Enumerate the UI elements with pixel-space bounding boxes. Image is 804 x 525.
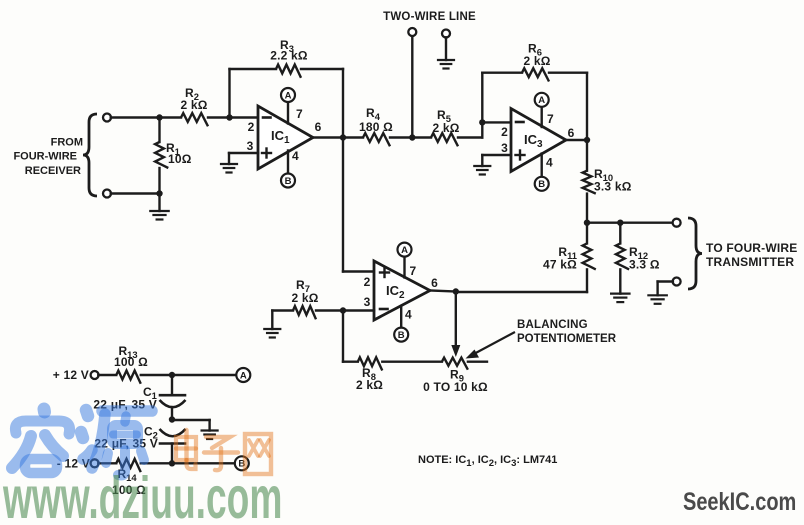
capacitor C1 (171, 375, 173, 395)
terminal A of IC3 (535, 93, 549, 107)
resistor R13 (98, 374, 116, 376)
svg-text:SeekIC.com: SeekIC.com (683, 488, 796, 516)
svg-text:2 kΩ: 2 kΩ (180, 98, 207, 112)
wire to terminal B (172, 462, 235, 464)
svg-text:3: 3 (247, 139, 254, 153)
svg-text:B: B (285, 176, 292, 187)
terminal B of IC2 (394, 328, 408, 342)
brace: to four-wire transmitter (688, 218, 702, 289)
node junction R1 top (156, 114, 162, 120)
node: four-wire receiver input top terminal (103, 114, 111, 122)
wire feedback top right (301, 68, 343, 70)
node: two-wire line terminal (408, 28, 416, 36)
svg-text:3: 3 (364, 295, 371, 309)
IC3 pin 4 stub (541, 154, 543, 177)
resistor R12 (619, 223, 621, 244)
resistor R5 (431, 133, 458, 146)
IC3 minus symbol (516, 121, 524, 124)
svg-text:FOUR-WIRE: FOUR-WIRE (13, 151, 77, 163)
node inverting input IC1 (226, 114, 232, 120)
svg-text:2 kΩ: 2 kΩ (291, 291, 318, 305)
node R12 top (617, 220, 623, 226)
wire feedback top left IC3 (482, 71, 522, 73)
ground at IC3 pin 3 (474, 165, 490, 167)
node: four-wire receiver input bottom terminal (103, 190, 111, 198)
terminal B of IC3 (535, 177, 549, 191)
node: to four-wire transmitter bottom terminal (673, 278, 681, 286)
svg-text:B: B (538, 179, 545, 190)
IC1 output wire (313, 136, 343, 138)
IC2 pin 4 stub (400, 306, 402, 328)
IC1 pin 7 stub (287, 103, 289, 124)
svg-text:4: 4 (546, 156, 553, 170)
brace: from four-wire receiver (83, 114, 97, 196)
svg-text:2: 2 (501, 125, 508, 139)
svg-text:+ 12 V: + 12 V (53, 368, 89, 382)
node output row left (584, 220, 590, 226)
wire bottom input (111, 192, 160, 194)
wire two-wire line vertical (411, 36, 413, 138)
resistor R10 (586, 140, 588, 171)
node junction R1 bottom (156, 190, 162, 196)
resistor R2 (181, 113, 208, 126)
svg-text:3: 3 (501, 141, 508, 155)
node capacitor midpoint (169, 416, 175, 422)
wire bottom terminal to ground (658, 280, 673, 282)
ground at two-wire line (438, 59, 454, 61)
wire IC2 inverting input (343, 309, 374, 311)
svg-text:2: 2 (364, 275, 371, 289)
node: +12 V terminal (91, 371, 99, 379)
terminal A of IC2 (398, 243, 412, 257)
wire to terminal A (172, 374, 236, 376)
svg-text:7: 7 (547, 112, 554, 126)
wire feedback right vertical IC3 (586, 73, 588, 140)
svg-text:2 kΩ: 2 kΩ (356, 378, 383, 392)
svg-text:RECEIVER: RECEIVER (25, 165, 81, 177)
svg-text:www.dziuu.com: www.dziuu.com (2, 465, 282, 520)
wire to IC3 inverting input (482, 121, 511, 123)
svg-text:3.3 kΩ: 3.3 kΩ (594, 180, 632, 194)
node: two-wire line ground terminal (442, 30, 450, 38)
resistor R4 (343, 136, 363, 138)
svg-text:2 kΩ: 2 kΩ (523, 54, 550, 68)
wire to IC1 inverting input (230, 116, 259, 118)
resistor R6 (522, 68, 549, 81)
svg-text:A: A (538, 95, 545, 106)
IC1 pin 3 wire to ground (229, 152, 258, 154)
svg-text:2 kΩ: 2 kΩ (432, 121, 459, 135)
node IC2 output (453, 288, 459, 294)
wiper arrow from IC2 output to R9 (455, 292, 457, 347)
resistor R7 (272, 309, 293, 311)
IC3 output wire (566, 139, 587, 141)
pointer arrow balancing potentiometer (472, 333, 514, 356)
svg-text:7: 7 (296, 107, 303, 121)
svg-text:4: 4 (292, 149, 299, 163)
svg-text:TO FOUR-WIRE: TO FOUR-WIRE (706, 241, 798, 255)
resistor R8 (343, 361, 358, 363)
ground at capacitor midpoint (202, 429, 218, 431)
svg-text:2: 2 (248, 120, 255, 134)
wire terminal to ground (445, 37, 447, 60)
IC2 plus symbol (380, 271, 389, 273)
resistor R1 (158, 118, 160, 143)
IC1 minus symbol (263, 116, 271, 119)
svg-text:0 TO 10 kΩ: 0 TO 10 kΩ (423, 380, 488, 394)
node two-wire junction (409, 134, 415, 140)
svg-text:3.3 Ω: 3.3 Ω (629, 258, 660, 272)
watermark chinese rong yuan (12, 409, 152, 476)
svg-text:6: 6 (315, 120, 322, 134)
ground at IC1 pin 3 (221, 163, 237, 165)
node R13 right (169, 372, 175, 378)
IC3 plus symbol (516, 154, 525, 156)
svg-text:A: A (240, 370, 247, 381)
IC1 plus symbol (262, 152, 271, 154)
wire top input (111, 116, 160, 118)
resistor R3 (276, 65, 301, 78)
wire feedback right vertical (342, 69, 344, 138)
svg-text:100 Ω: 100 Ω (114, 355, 148, 369)
IC2 minus symbol (380, 308, 388, 311)
op-amp IC2 (374, 261, 430, 320)
svg-text:47 kΩ: 47 kΩ (543, 258, 577, 272)
wire IC1 output down to IC2 noninverting input (342, 138, 344, 272)
terminal A of IC1 (281, 88, 295, 102)
IC3 pin 3 wire to ground (482, 154, 511, 156)
resistor R11 (586, 223, 588, 244)
svg-text:B: B (398, 330, 405, 341)
ground at transmitter bottom terminal (648, 294, 666, 296)
op-amp IC3 (511, 109, 566, 172)
svg-text:FROM: FROM (51, 137, 83, 149)
wire R7 to ground (271, 311, 273, 330)
node IC2 inverting input (340, 307, 346, 313)
node IC1 output (340, 134, 346, 140)
capacitor C2 (160, 429, 186, 436)
terminal B of IC1 (281, 174, 295, 188)
wire feedback top right IC3 (549, 71, 587, 73)
wire feedback left vertical (228, 69, 230, 118)
op-amp IC1 (258, 106, 313, 169)
svg-text:TRANSMITTER: TRANSMITTER (706, 255, 794, 269)
svg-text:TWO-WIRE LINE: TWO-WIRE LINE (383, 11, 476, 23)
node: -12 V terminal (91, 459, 99, 467)
wire IC2 inverting node down to R8 (342, 311, 344, 362)
wire feedback top left (230, 68, 277, 70)
svg-text:2.2 kΩ: 2.2 kΩ (270, 49, 308, 63)
wire IC3 input vertical (481, 73, 483, 138)
terminal B supply (235, 456, 249, 470)
IC3 pin 7 stub (541, 107, 543, 127)
svg-text:7: 7 (410, 264, 417, 278)
wire output row (587, 221, 673, 223)
ground at R7 (264, 328, 280, 330)
wire R11 bottom to IC2 output (456, 291, 587, 293)
IC1 pin 4 stub (287, 151, 289, 174)
IC2 output wire (430, 291, 456, 292)
wire input node to R2 (160, 116, 182, 118)
potentiometer R9 (442, 358, 468, 370)
resistor R14 (98, 462, 116, 464)
node: to four-wire transmitter top terminal (673, 219, 681, 227)
node R14 right (169, 460, 175, 466)
node IC3 inverting input (479, 119, 485, 125)
svg-text:A: A (401, 245, 408, 256)
svg-text:180 Ω: 180 Ω (359, 120, 393, 134)
svg-text:A: A (285, 90, 292, 101)
svg-text:4: 4 (405, 308, 412, 322)
svg-text:10Ω: 10Ω (168, 152, 192, 166)
svg-text:BALANCING: BALANCING (517, 319, 588, 331)
terminal A supply (236, 368, 250, 382)
wire midpoint to ground (172, 419, 210, 421)
wire to IC2 noninverting input (343, 270, 374, 272)
node IC3 output (584, 137, 590, 143)
IC2 pin 7 stub (403, 257, 405, 278)
ground below R1 (158, 194, 160, 212)
svg-text:6: 6 (431, 276, 438, 290)
svg-text:POTENTIOMETER: POTENTIOMETER (517, 333, 617, 345)
ground below R12 (611, 293, 629, 295)
svg-text:6: 6 (568, 126, 575, 140)
watermark dianziwang (176, 430, 271, 474)
